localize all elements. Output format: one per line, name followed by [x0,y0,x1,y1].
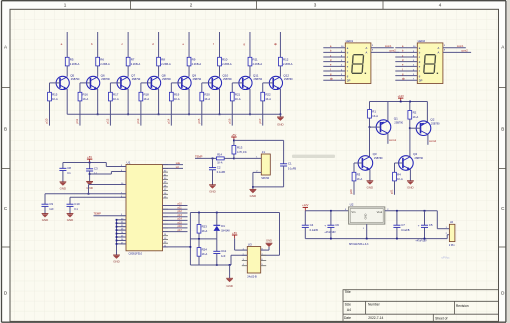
capacitor C2 [212,158,214,167]
wire emitter [279,89,281,114]
svg-text:4.7K,1%: 4.7K,1% [237,150,247,154]
capacitor C9 [44,194,46,204]
wire segment net g [249,32,251,57]
svg-text:LED2: LED2 [418,39,426,43]
svg-text:p12: p12 [106,118,110,123]
wire right [279,213,281,256]
wire segment net f [219,32,221,57]
wire base [110,82,121,84]
transistor Q2 [416,118,440,136]
svg-text:GND: GND [367,185,373,189]
svg-text:U2: U2 [350,202,354,206]
wire emitter Q2 [426,102,428,123]
resistor R10 [218,57,232,66]
resistor R4 [393,172,403,181]
svg-text:C11: C11 [221,249,226,253]
ground [113,255,120,263]
resistor R22 [261,92,271,101]
wire c to LED1 [323,56,345,58]
wire [195,157,216,159]
ground [209,185,216,194]
wire net p13 [140,101,142,126]
svg-text:scl: scl [176,166,180,169]
wire emitter [66,89,68,114]
svg-text:Vin: Vin [351,210,355,214]
svg-text:0.1uFB: 0.1uFB [288,166,297,170]
wire segment net c [127,32,129,57]
ground [226,278,233,288]
wire net p10 [163,205,188,207]
wire U1 grounded pins bus [116,219,126,255]
junction [188,113,190,115]
transistor Q11 [239,74,263,90]
svg-text:GND: GND [67,218,73,222]
wire XTAL1 [89,184,127,186]
transistor Q10 [208,74,232,90]
wire base [171,82,182,84]
svg-text:J2: J2 [450,220,454,224]
ground [42,214,49,222]
wire [279,66,281,77]
junction [89,162,91,164]
wire e to LED1 [323,65,345,67]
wire emitter Q3 [369,169,371,180]
wire base Q3 [354,162,362,164]
svg-text:C10: C10 [74,202,80,206]
junction [330,238,332,240]
wire net p14 [163,219,188,221]
svg-text:R22: R22 [265,92,271,96]
svg-text:2.2KB-A: 2.2KB-A [100,62,110,66]
wire emitter bus [67,113,280,115]
svg-text:GND: GND [277,123,283,127]
svg-text:C8051F310: C8051F310 [129,252,143,256]
svg-text:LED1: LED1 [346,39,354,43]
svg-text:2: 2 [190,3,193,8]
svg-text:C6: C6 [335,223,339,227]
svg-text:R18: R18 [143,92,149,96]
wire mid rail [190,238,216,240]
wire to J2 pin1 [436,211,438,229]
wire net p16 [231,101,233,126]
svg-text:dp: dp [274,42,278,46]
transistor Q8 [147,74,171,90]
svg-text:0.1uFB: 0.1uFB [217,170,226,174]
svg-text:Revision: Revision [456,304,469,308]
svg-text:2SB790: 2SB790 [101,78,110,81]
wire +12V rail [370,101,428,103]
svg-text:com2: com2 [461,49,468,53]
svg-text:R4: R4 [397,172,401,176]
svg-text:0.1uFB: 0.1uFB [310,228,319,232]
svg-text:1K-A: 1K-A [372,114,378,118]
junction [424,238,426,240]
wire output rail [385,210,438,212]
svg-text:A: A [438,46,440,50]
junction [158,113,160,115]
svg-text:R14: R14 [217,153,222,157]
junction [249,113,251,115]
wire [231,254,247,256]
svg-text:2SB790: 2SB790 [223,78,232,81]
svg-text:GND: GND [60,186,66,190]
wire base [232,82,243,84]
wire [158,66,160,77]
wire g to LED1 [323,75,345,77]
wire segment net a [66,32,68,57]
svg-text:A4: A4 [347,308,351,312]
svg-text:1K-A: 1K-A [174,97,180,101]
wire com2 LED2 [443,51,471,53]
wire [233,140,235,145]
U1 right pin stubs [163,165,169,248]
junction [219,113,221,115]
svg-text:GND: GND [407,185,413,189]
wire [234,139,284,141]
svg-text:R12: R12 [283,57,289,61]
wire base [50,82,61,84]
svg-text:2.2KB-A: 2.2KB-A [131,62,141,66]
svg-text:J1: J1 [262,150,266,154]
svg-text:com1: com1 [385,44,392,48]
power +12V regulator [302,203,309,211]
wire base Q4 [395,162,403,164]
svg-text:p14: p14 [166,118,170,123]
resistor R17 [109,92,119,101]
svg-text:C3: C3 [94,167,98,171]
wire f to LED2 [395,70,417,72]
svg-text:R8: R8 [161,57,165,61]
junction [216,212,218,214]
capacitor C5 [424,211,426,225]
wire a to LED2 [395,47,417,49]
transistor Q12 [269,74,293,90]
svg-text:sda: sda [176,162,181,165]
svg-text:A: A [366,50,368,54]
svg-text:1K-A: 1K-A [235,97,241,101]
svg-text:p10: p10 [178,203,183,206]
resistor R9 [187,57,201,66]
svg-text:A: A [366,46,368,50]
svg-text:Date: Date [344,316,351,320]
svg-text:2SB790: 2SB790 [71,78,80,81]
junction [127,113,129,115]
svg-text:GND: GND [226,284,232,288]
wire net p17 [262,101,264,126]
wire [219,66,221,77]
svg-text:Q9: Q9 [192,74,196,78]
svg-text:C5: C5 [429,223,433,227]
wire b to LED1 [323,51,345,53]
svg-text:+5V: +5V [232,231,237,235]
wire J1 pin2 [253,171,261,173]
wire [224,157,234,159]
wire net p15 [163,223,188,225]
wire segment net b [97,32,99,57]
svg-text:Q2: Q2 [430,118,434,122]
junction [97,113,99,115]
transistor Q6 [87,74,111,90]
wire net p13 [163,216,188,218]
power +5V U1 [87,155,92,163]
svg-text:0.1: 0.1 [94,171,98,175]
svg-text:R3: R3 [357,172,361,176]
junction [366,238,368,240]
wire collector Q3 [369,127,371,157]
svg-text:+: + [324,223,326,227]
wire segment net d [158,32,160,57]
wire emitter [127,89,129,114]
svg-text:2.2KB-A: 2.2KB-A [70,62,80,66]
svg-text:+47uF/16V: +47uF/16V [324,232,336,234]
svg-text:1K-A: 1K-A [217,162,223,165]
ground [86,182,93,190]
svg-text:p15: p15 [197,118,201,123]
wire J1 pin1 [234,157,261,159]
svg-text:uPVcc: uPVcc [442,255,451,259]
svg-text:2SB790: 2SB790 [132,78,141,81]
svg-text:1nF: 1nF [49,207,54,211]
svg-text:A: A [438,50,440,54]
wire net p20 [353,181,355,195]
wire top rail [190,212,279,214]
transistor Q3 [358,152,383,170]
7-segment display LED1 [341,39,374,84]
svg-text:Q6: Q6 [101,74,105,78]
junction [198,238,200,240]
svg-text:GND: GND [363,213,367,219]
wire collector Q4 [409,128,411,156]
svg-text:com2: com2 [389,49,396,53]
svg-text:R24: R24 [202,248,208,252]
resistor R21 [230,92,240,101]
capacitor C6 [330,211,332,225]
svg-text:2SB790: 2SB790 [374,157,383,160]
capacitor C10 [69,197,71,204]
svg-text:R5: R5 [70,57,74,61]
wire collector Q2 net com2 [427,134,429,144]
svg-text:R7: R7 [131,57,135,61]
wire dp to LED1 [323,79,345,81]
svg-text:R9: R9 [192,57,196,61]
svg-text:4: 4 [439,3,442,8]
wire net p12 [163,212,188,214]
wire a to LED1 [323,47,345,49]
wire emitter [249,89,251,114]
wire segment net dp [279,32,281,57]
svg-text:1nF: 1nF [221,254,226,258]
junction [396,238,398,240]
svg-text:GND: GND [250,194,256,198]
wire g to LED2 [395,75,417,77]
junction [89,173,91,175]
wire [198,233,200,239]
svg-text:2SB790: 2SB790 [415,157,424,160]
junction [190,246,192,248]
capacitor C7 [396,211,398,225]
wire U2 gnd stub [366,224,368,239]
7-segment display LED2 [413,39,446,84]
junction [330,210,332,212]
wire net p10 [49,101,51,126]
junction [229,264,231,266]
wire ground rail [305,238,447,240]
resistor R8 [157,57,171,66]
wire U1 pin to EEPROM section [163,246,191,248]
wire [188,66,190,77]
wire net p12 [109,101,111,126]
wire f to LED1 [323,70,345,72]
svg-text:Vout: Vout [377,210,383,214]
comment text (faint) [292,155,335,158]
svg-text:2.2KB-A: 2.2KB-A [222,62,232,66]
svg-text:1K-A: 1K-A [83,97,89,101]
wire com1 LED2 [443,47,466,49]
junction [396,210,398,212]
ic U3 24C02 [247,242,260,278]
svg-text:SPX1117M3-L-3-3: SPX1117M3-L-3-3 [349,243,369,246]
svg-text:R2: R2 [413,111,417,115]
transistor Q1 [376,117,403,135]
svg-text:p11: p11 [178,206,183,209]
svg-text:p21: p21 [390,189,394,194]
svg-text:1K-A: 1K-A [52,97,58,101]
resistor R1 [369,102,371,110]
svg-text:C2: C2 [217,165,221,169]
wire com2 LED1 [371,51,399,53]
wire base [80,82,91,84]
junction [212,158,214,160]
wire [70,196,126,198]
svg-text:0.1uFB: 0.1uFB [401,228,410,232]
svg-text:R13: R13 [237,146,243,150]
svg-text:GND: GND [209,189,215,193]
power +12V [398,94,405,102]
svg-text:com2: com2 [429,139,436,143]
svg-text:p20: p20 [349,189,353,194]
resistor R18 [139,92,149,101]
svg-text:1K-A: 1K-A [202,229,208,233]
wire net TEMP [94,215,127,217]
ground [407,181,414,190]
op-amp U1 [126,160,163,255]
svg-text:+: + [418,223,420,227]
wire [97,66,99,77]
wire [105,163,107,167]
wire [90,173,112,175]
wire [261,249,269,251]
junction [424,210,426,212]
resistor R15 [48,92,58,101]
svg-text:dp: dp [330,77,333,81]
svg-text:DP: DP [419,78,423,82]
svg-text:+5V: +5V [87,155,92,159]
svg-text:R17: R17 [113,92,119,96]
wire net p14 [170,101,172,126]
svg-text:Q1: Q1 [394,117,398,121]
junction [233,140,235,142]
resistor R19 [169,92,179,101]
svg-text:com1: com1 [389,138,396,142]
ground [277,117,284,127]
svg-text:R16: R16 [83,92,89,96]
wire [66,66,68,77]
svg-text:U1: U1 [127,160,131,164]
svg-text:R20: R20 [204,92,210,96]
svg-text:1K-A: 1K-A [397,177,403,181]
junction [400,101,402,103]
svg-text:0.1: 0.1 [74,207,78,211]
svg-text:Q5: Q5 [70,74,74,78]
resistor R24 [198,239,200,248]
capacitor C3 [89,163,91,169]
resistor R14 [216,153,224,165]
svg-text:2022-7-14: 2022-7-14 [368,316,383,320]
svg-text:2.2KB-A: 2.2KB-A [161,62,171,66]
svg-text:GND: GND [86,186,92,190]
resistor R6 [96,57,110,66]
wire [409,119,411,128]
power +5V [231,133,236,141]
svg-text:B: B [4,127,7,132]
svg-text:2SB790: 2SB790 [254,78,263,81]
svg-text:2.2KB-A: 2.2KB-A [192,62,202,66]
transistor Q9 [178,74,202,90]
svg-text:Q8: Q8 [162,74,166,78]
svg-text:R11: R11 [253,57,258,61]
svg-text:GND: GND [266,239,272,243]
junction [409,101,411,103]
wire base [202,82,213,84]
ground [367,181,374,190]
svg-text:Q4: Q4 [413,152,417,156]
wire com1 LED1 [371,47,394,49]
wire c to LED2 [395,56,417,58]
resistor R5 [65,57,79,66]
svg-text:3: 3 [314,3,317,8]
svg-text:1K-A: 1K-A [413,115,419,119]
svg-text:2 Pin: 2 Pin [449,244,455,247]
svg-text:U3: U3 [248,242,252,246]
svg-text:DP: DP [347,78,351,82]
connector J1 [256,150,270,180]
wire net p11 [163,208,188,210]
ground [60,182,67,190]
wire [234,238,236,250]
svg-text:Size: Size [345,302,352,306]
svg-text:C9: C9 [49,202,53,206]
svg-text:1K-A: 1K-A [113,97,119,101]
junction [280,113,282,115]
wire net sda [163,164,184,166]
svg-text:1: 1 [64,3,67,8]
U3 pin stubs [242,249,266,267]
svg-text:R23: R23 [202,225,208,229]
capacitor C1 [280,162,296,171]
wire d to LED2 [395,61,417,63]
svg-text:Title: Title [345,290,351,294]
svg-text:Q10: Q10 [223,74,229,78]
svg-text:+47uF/16V: +47uF/16V [415,240,427,242]
resistor R11 [248,57,262,66]
wire [253,186,284,188]
junction [409,127,411,129]
svg-text:2SB790: 2SB790 [162,78,171,81]
ground [67,214,74,222]
svg-text:C8: C8 [67,166,71,170]
wire base [263,82,274,84]
wire emitter Q4 [409,169,411,180]
